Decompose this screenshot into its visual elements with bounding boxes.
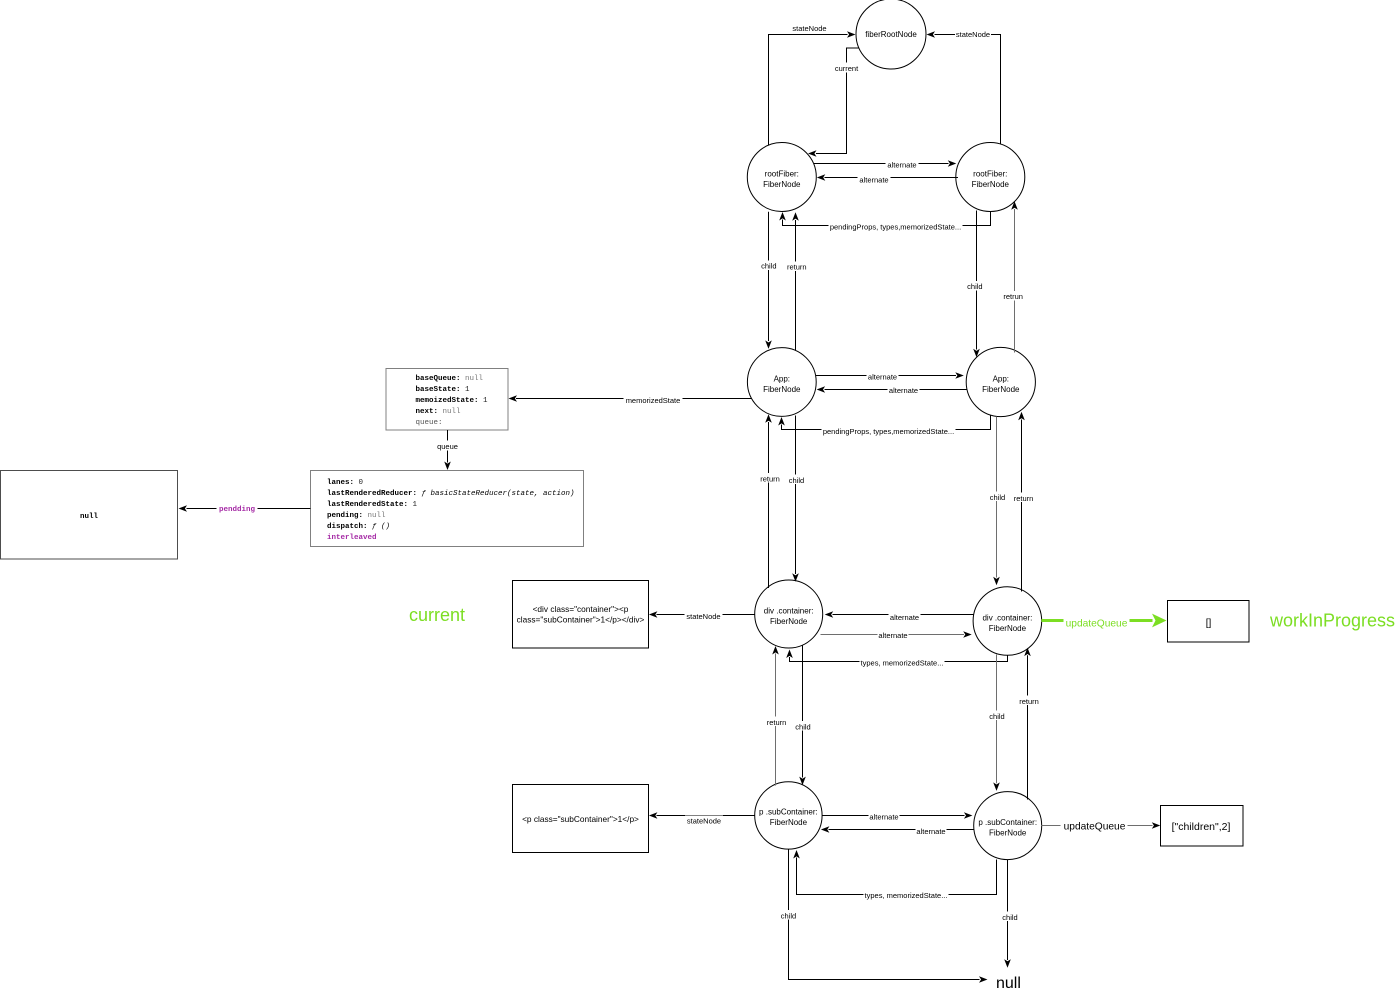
node div container left bbox=[755, 580, 823, 648]
wire updateQueue p right to children box bbox=[1042, 822, 1161, 833]
node App right bbox=[966, 347, 1035, 416]
svg-text:queue:: queue: bbox=[416, 419, 443, 427]
wire updateQueue green div right to empty box bbox=[1042, 614, 1167, 630]
svg-text:child: child bbox=[990, 493, 1005, 502]
svg-text:return: return bbox=[767, 718, 787, 727]
box div stateNode html bbox=[513, 581, 649, 649]
svg-text:alternate: alternate bbox=[868, 373, 897, 382]
wire alternate p right to left bbox=[821, 826, 974, 836]
wire alternate p left to right bbox=[823, 812, 973, 822]
wire return div left to App left bbox=[760, 414, 780, 588]
box updateQueue children bbox=[1161, 806, 1244, 847]
svg-text:updateQueue: updateQueue bbox=[1066, 619, 1128, 630]
wire stateNode left to fiberRootNode bbox=[769, 24, 856, 145]
svg-text:return: return bbox=[1019, 697, 1039, 706]
svg-text:queue: queue bbox=[437, 442, 458, 451]
svg-text:dispatch: ƒ (): dispatch: ƒ () bbox=[327, 523, 390, 531]
box baseQueue bbox=[386, 369, 508, 431]
node rootFiber left bbox=[747, 143, 816, 212]
svg-text:null: null bbox=[996, 975, 1021, 992]
box hook queue bbox=[311, 471, 584, 547]
wire return App left to rootFiber left bbox=[787, 212, 807, 350]
svg-text:return: return bbox=[1014, 494, 1034, 503]
wire child App left to div left bbox=[789, 416, 805, 582]
node div container right bbox=[973, 587, 1042, 656]
svg-text:App:: App: bbox=[774, 374, 790, 383]
svg-text:child: child bbox=[989, 712, 1004, 721]
svg-text:current: current bbox=[409, 605, 465, 625]
wire child p left to null bbox=[780, 850, 988, 983]
svg-text:div .container:: div .container: bbox=[764, 606, 814, 615]
svg-text:return: return bbox=[760, 474, 780, 483]
svg-text:stateNode: stateNode bbox=[686, 612, 720, 621]
svg-text:child: child bbox=[789, 476, 804, 485]
node p subContainer right bbox=[974, 792, 1042, 860]
wire alternate rootFiber right to left bbox=[817, 174, 958, 185]
node rootFiber right bbox=[956, 143, 1025, 212]
wire child App right to div right bbox=[989, 417, 1006, 586]
svg-text:child: child bbox=[781, 911, 796, 920]
wire alternate rootFiber left to right bbox=[814, 160, 957, 170]
node App left bbox=[747, 348, 816, 417]
svg-text:fiberRootNode: fiberRootNode bbox=[865, 30, 917, 39]
svg-text:return: return bbox=[787, 263, 807, 272]
svg-text:updateQueue: updateQueue bbox=[1064, 822, 1126, 833]
svg-text:memoizedState: 1: memoizedState: 1 bbox=[416, 397, 489, 405]
svg-text:lastRenderedState: 1: lastRenderedState: 1 bbox=[327, 501, 418, 509]
wire stateNode p left to html box bbox=[649, 812, 755, 825]
svg-text:pendding: pendding bbox=[219, 506, 256, 514]
svg-text:types, memorizedState...: types, memorizedState... bbox=[861, 659, 944, 668]
svg-text:alternate: alternate bbox=[878, 631, 907, 640]
wire pendingProps App right to left bbox=[778, 416, 990, 436]
svg-text:stateNode: stateNode bbox=[792, 24, 826, 33]
svg-text:<p class="subContainer">1</p>: <p class="subContainer">1</p> bbox=[522, 814, 639, 824]
svg-text:alternate: alternate bbox=[890, 613, 919, 622]
svg-text:null: null bbox=[80, 513, 99, 521]
svg-text:stateNode: stateNode bbox=[956, 30, 990, 39]
svg-text:baseQueue: null: baseQueue: null bbox=[416, 375, 484, 383]
wire current fiberRootNode to rootFiber left bbox=[808, 48, 859, 157]
box null bbox=[1, 471, 178, 560]
wire stateNode div left to html box bbox=[649, 611, 755, 622]
svg-text:rootFiber:: rootFiber: bbox=[765, 169, 799, 178]
svg-text:lanes: 0: lanes: 0 bbox=[327, 479, 364, 487]
wire pendingProps rootFiber right to left bbox=[779, 212, 990, 232]
wire types memorizedState p right to left bbox=[793, 850, 996, 900]
wire alternate App right to left bbox=[817, 385, 967, 395]
wire queue baseQueue box to hook queue box bbox=[436, 430, 459, 470]
wire types memorizedState div right to left bbox=[786, 650, 1007, 668]
wire child div right to p right bbox=[989, 655, 1006, 791]
wire child rootFiber left to App left bbox=[761, 212, 778, 349]
svg-text:rootFiber:: rootFiber: bbox=[973, 169, 1007, 178]
box updateQueue empty bbox=[1168, 601, 1250, 643]
svg-text:child: child bbox=[761, 262, 776, 271]
wire alternate App left to right bbox=[816, 372, 964, 382]
svg-text:FiberNode: FiberNode bbox=[989, 624, 1027, 633]
wire child rootFiber right to App right bbox=[967, 211, 984, 358]
svg-text:workInProgress: workInProgress bbox=[1269, 611, 1395, 631]
svg-text:current: current bbox=[835, 64, 859, 73]
wire return p left to div left bbox=[767, 646, 787, 786]
svg-text:FiberNode: FiberNode bbox=[972, 180, 1010, 189]
svg-text:baseState: 1: baseState: 1 bbox=[416, 386, 471, 394]
svg-text:[]: [] bbox=[1206, 618, 1212, 629]
svg-text:alternate: alternate bbox=[916, 827, 945, 836]
wire child p right to null bbox=[1002, 860, 1019, 968]
wire stateNode right to fiberRootNode bbox=[927, 29, 1001, 145]
wire return p right to div right bbox=[1019, 648, 1039, 800]
svg-text:div .container:: div .container: bbox=[982, 613, 1032, 622]
wire return div right to App right bbox=[1014, 412, 1034, 592]
svg-text:child: child bbox=[795, 722, 810, 731]
svg-text:pendingProps, types,memorizedS: pendingProps, types,memorizedState... bbox=[823, 427, 954, 436]
svg-text:FiberNode: FiberNode bbox=[763, 180, 801, 189]
wire retrun App right to rootFiber right bbox=[1003, 201, 1024, 352]
wire pendding hook queue box to null box bbox=[179, 502, 311, 514]
node p subContainer left bbox=[755, 782, 822, 849]
svg-text:FiberNode: FiberNode bbox=[982, 385, 1020, 394]
svg-text:alternate: alternate bbox=[859, 176, 888, 185]
svg-text:types, memorizedState...: types, memorizedState... bbox=[865, 891, 948, 900]
svg-text:p .subContainer:: p .subContainer: bbox=[759, 808, 818, 817]
box p stateNode html bbox=[513, 785, 649, 853]
svg-text:retrun: retrun bbox=[1003, 292, 1023, 301]
svg-text:alternate: alternate bbox=[887, 161, 916, 170]
svg-text:stateNode: stateNode bbox=[687, 816, 721, 825]
svg-text:next: null: next: null bbox=[416, 408, 462, 416]
svg-text:<div class="container"><p: <div class="container"><p bbox=[533, 604, 629, 614]
svg-text:FiberNode: FiberNode bbox=[770, 818, 808, 827]
svg-text:FiberNode: FiberNode bbox=[763, 385, 801, 394]
svg-text:["children",2]: ["children",2] bbox=[1172, 821, 1231, 833]
wire memorizedState App left to baseQueue box bbox=[509, 395, 752, 405]
svg-text:memorizedState: memorizedState bbox=[626, 396, 681, 405]
svg-text:child: child bbox=[1002, 913, 1017, 922]
svg-text:App:: App: bbox=[993, 374, 1009, 383]
svg-text:lastRenderedReducer: ƒ basicSt: lastRenderedReducer: ƒ basicStateReducer… bbox=[327, 490, 575, 498]
wire child div left to p left bbox=[795, 646, 812, 786]
svg-text:interleaved: interleaved bbox=[327, 534, 377, 542]
svg-text:alternate: alternate bbox=[889, 386, 918, 395]
svg-text:child: child bbox=[967, 282, 982, 291]
svg-text:class="subContainer">1</p></di: class="subContainer">1</p></div> bbox=[517, 615, 645, 625]
wire alternate div left to right bbox=[821, 630, 972, 640]
svg-text:FiberNode: FiberNode bbox=[770, 617, 808, 626]
node fiberRootNode bbox=[856, 0, 926, 69]
svg-text:p .subContainer:: p .subContainer: bbox=[978, 818, 1037, 827]
wire alternate div right to left bbox=[825, 611, 974, 622]
svg-text:FiberNode: FiberNode bbox=[989, 828, 1027, 837]
svg-text:alternate: alternate bbox=[869, 813, 898, 822]
svg-text:pending: null: pending: null bbox=[327, 512, 386, 520]
svg-text:pendingProps, types,memorizedS: pendingProps, types,memorizedState... bbox=[830, 222, 961, 231]
